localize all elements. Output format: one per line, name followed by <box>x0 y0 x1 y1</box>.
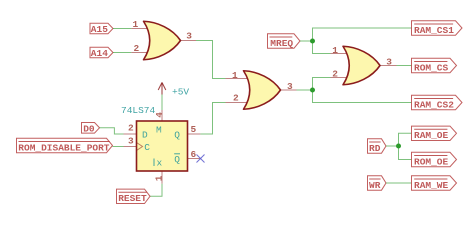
svg-text:RAM_CS1: RAM_CS1 <box>414 25 454 36</box>
svg-text:1: 1 <box>232 70 238 81</box>
svg-text:1: 1 <box>133 19 139 30</box>
svg-text:1: 1 <box>332 45 338 56</box>
wire junction up to OR3 pin2 <box>313 78 331 91</box>
pin OR3 input 2 <box>331 77 349 79</box>
wire D0 to FF pin 2 <box>100 128 124 134</box>
wire OR1 output to OR2 pin1 <box>196 41 226 79</box>
pin OR1 output 3 <box>179 40 196 42</box>
svg-text:5: 5 <box>191 124 197 135</box>
net label RESET <box>117 189 151 204</box>
svg-text:ROM_CS: ROM_CS <box>414 62 449 73</box>
or-gate U2B 74LS32 <box>244 71 281 110</box>
wire A15 to OR1 pin1 <box>113 28 131 30</box>
svg-text:A15: A15 <box>91 24 108 35</box>
wire WR to RAM_WE <box>386 182 412 184</box>
net label WR <box>368 176 387 191</box>
pin OR1 input 2 <box>131 52 149 54</box>
net label RAM_WE <box>412 176 457 191</box>
svg-text:MREQ: MREQ <box>270 38 293 49</box>
svg-text:RAM_WE: RAM_WE <box>414 180 449 191</box>
net label ROM_OE <box>412 152 457 167</box>
net label RAM_CS1 <box>412 21 463 36</box>
svg-text:RAM_OE: RAM_OE <box>414 130 449 141</box>
svg-text:ROM_OE: ROM_OE <box>414 156 449 167</box>
pin OR3 output 3 <box>379 65 397 67</box>
or-gate U2C 74LS32 <box>343 46 380 85</box>
svg-text:2: 2 <box>134 43 140 54</box>
svg-text:A14: A14 <box>91 48 108 59</box>
pin FF 3 (C) <box>124 146 137 148</box>
pin FF 2 (D) <box>124 133 137 135</box>
svg-text:2: 2 <box>233 93 239 104</box>
net label RAM_OE <box>412 126 457 141</box>
wire ROM_DISABLE_PORT to FF pin 3 <box>113 146 124 148</box>
wire Q to OR2 pin2 <box>200 103 225 135</box>
wire A14 to OR1 pin2 <box>113 52 131 54</box>
svg-text:Q: Q <box>174 154 180 165</box>
pin FF 1 (CLR) <box>161 171 163 184</box>
pin OR3 input 1 <box>331 53 349 55</box>
flip-flop U1 74LS74 body <box>137 121 188 171</box>
svg-text:RESET: RESET <box>118 193 147 204</box>
pin OR1 input 1 <box>131 28 149 30</box>
svg-text:ROM_DISABLE_PORT: ROM_DISABLE_PORT <box>18 142 110 153</box>
net label RAM_CS2 <box>412 95 463 110</box>
wire OR3 output to ROM_CS <box>397 65 412 67</box>
svg-text:D0: D0 <box>83 123 95 134</box>
svg-text:2: 2 <box>128 123 134 134</box>
net label RD <box>368 139 387 154</box>
+5V supply symbol <box>158 83 166 95</box>
junction OR2 output <box>310 88 315 93</box>
wire junction down to OR3 pin1 <box>313 41 331 54</box>
svg-text:Q: Q <box>174 130 180 141</box>
svg-text:RAM_CS2: RAM_CS2 <box>414 99 454 110</box>
net label A15 <box>90 23 113 35</box>
junction RD <box>396 144 401 149</box>
svg-text:4: 4 <box>154 112 165 118</box>
wire junction down to ROM_OE <box>399 146 412 160</box>
junction MREQ <box>310 39 315 44</box>
net label ROM_CS <box>412 58 457 73</box>
or-gate U2A 74LS32 <box>144 21 181 60</box>
wire junction up to RAM_OE <box>399 133 412 146</box>
svg-text:1: 1 <box>153 175 164 181</box>
svg-text:+5V: +5V <box>172 87 189 98</box>
pin name CLR (Ix glyph) <box>154 158 163 169</box>
svg-text:D: D <box>142 130 148 141</box>
pin FF 5 (Q) <box>188 133 201 135</box>
wire +5V to FF pin 4 <box>161 95 163 111</box>
pin name Qbar <box>174 154 180 165</box>
svg-text:2: 2 <box>332 69 338 80</box>
pin FF 4 (PRE) <box>161 110 163 121</box>
no-connect X on pin 6 <box>197 155 205 163</box>
pin OR2 input 1 <box>226 78 250 80</box>
wire OR2 output to junction <box>297 89 313 91</box>
svg-text:x: x <box>157 158 163 169</box>
svg-text:6: 6 <box>191 149 197 160</box>
svg-text:RD: RD <box>369 143 381 154</box>
net label D0 <box>82 123 100 135</box>
pin OR2 input 2 <box>226 102 250 104</box>
wire MREQ to junction <box>300 40 313 42</box>
svg-text:C: C <box>144 142 150 153</box>
svg-text:3: 3 <box>186 30 192 41</box>
wire RD to junction <box>386 145 399 147</box>
svg-text:3: 3 <box>128 136 134 147</box>
svg-text:74LS74: 74LS74 <box>121 105 156 116</box>
clock chevron <box>137 143 143 151</box>
wire junction down to RAM_CS2 <box>313 90 412 103</box>
svg-text:3: 3 <box>386 56 392 67</box>
svg-text:3: 3 <box>287 81 293 92</box>
net label MREQ <box>268 34 301 49</box>
wire RESET to FF pin 1 <box>150 184 162 197</box>
svg-text:WR: WR <box>369 180 381 191</box>
svg-text:M: M <box>156 125 162 136</box>
pin FF 6 (Qbar) <box>188 158 201 160</box>
pin OR2 output 3 <box>279 89 297 91</box>
wire junction up to RAM_CS1 <box>313 28 412 41</box>
net label ROM_DISABLE_PORT <box>17 138 113 153</box>
net label A14 <box>90 47 113 59</box>
